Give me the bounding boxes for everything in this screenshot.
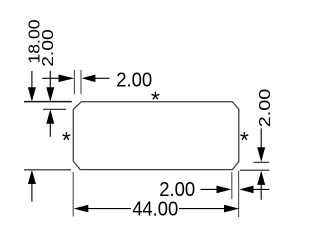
dim 44.00: left dimension line (88, 208, 131, 210)
dim 2.00 top: right-pointing arrowhead (59, 75, 75, 83)
dim 2.00 left top arrow shaft (49, 71, 51, 88)
svg-text:2.00: 2.00 (40, 29, 57, 67)
dim 2.00 bottom-right: extension line at x=231.8 (231, 172, 233, 199)
svg-text:2.00: 2.00 (159, 179, 195, 201)
dim 2.00 bottom-right: right-pointing arrowhead (217, 186, 232, 194)
extension tick at top edge level (left) (24, 101, 72, 103)
svg-text:2.00: 2.00 (116, 70, 152, 92)
dim 44.00: right dimension line (179, 208, 225, 210)
svg-text:44.00: 44.00 (132, 199, 178, 221)
dim 44.00: right arrowhead (points right) (224, 205, 239, 213)
dim 2.00 left bottom arrowhead (up) (46, 109, 54, 123)
dim 18.00 bottom arrowhead (up) (28, 170, 36, 184)
dim 2.00 right bottom arrow shaft (260, 184, 262, 199)
svg-text:*: * (151, 86, 160, 112)
dim 18.00 top arrow shaft (31, 71, 33, 88)
dim 18.00 bottom arrow shaft (31, 184, 33, 202)
dim 2.00 top: left dimension line (42, 77, 61, 79)
dim 2.00 bottom-right: extension line at x=238.6 (238, 171, 240, 217)
svg-text:*: * (62, 127, 71, 153)
svg-text:*: * (240, 127, 249, 153)
dim 2.00 right top arrow shaft (260, 128, 262, 148)
dim 2.00 left bottom arrow shaft (49, 123, 51, 137)
part outline: chamfered rectangle (73, 102, 239, 170)
extension tick at bottom edge level (left) (24, 169, 71, 171)
dim 2.00 bottom-right: left-pointing arrowhead (239, 186, 253, 194)
dim 18.00 top arrowhead (down) (28, 87, 36, 101)
dim 2.00 top: left-pointing arrowhead (82, 75, 96, 83)
dim 44.00: left arrowhead (points left) (74, 205, 89, 213)
extension line at bottom edge level (right) (240, 169, 269, 171)
extension tick at chamfer level y=109 (left) (43, 108, 66, 110)
dim 2.00 top: extension line left (73, 70, 75, 94)
dim 44.00: extension line left (72, 172, 74, 217)
dim 2.00 bottom-right: right dimension line (253, 188, 269, 190)
dim 2.00 top: right dimension line (95, 77, 110, 79)
dim 2.00 right top arrowhead (down) (257, 147, 265, 162)
dim 2.00 bottom-right: left dimension line (201, 188, 218, 190)
dim 2.00 top: extension line right (80, 70, 82, 94)
dim 2.00 right bottom arrowhead (up) (257, 171, 265, 185)
extension tick at chamfer level y=162 (right) (254, 161, 270, 163)
dim 2.00 left top arrowhead (down) (46, 87, 54, 101)
svg-text:2.00: 2.00 (257, 88, 274, 127)
